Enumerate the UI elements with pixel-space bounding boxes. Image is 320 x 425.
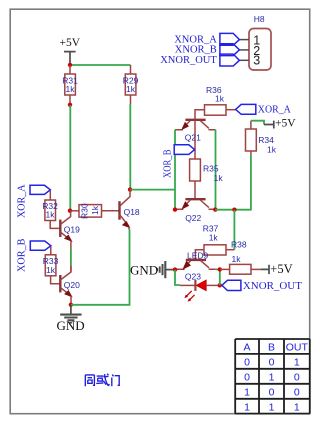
wire R32 to Q19 base	[50, 221, 59, 229]
node junction R37 tap	[232, 208, 236, 212]
node junction at R31 top	[68, 63, 72, 67]
svg-text:1k: 1k	[232, 254, 242, 264]
LED LED9	[184, 251, 219, 302]
wire Q23 collector jog	[216, 268, 220, 270]
node junction LED anode / XNOR_OUT	[218, 283, 222, 287]
svg-text:0: 0	[244, 357, 250, 369]
power +5V right	[264, 118, 296, 130]
node junction Q22 collector	[213, 207, 217, 211]
svg-text:1: 1	[294, 357, 300, 369]
svg-text:1k: 1k	[126, 84, 136, 94]
svg-text:Q19: Q19	[64, 225, 80, 235]
svg-text:XOR_A: XOR_A	[258, 105, 292, 116]
wire R31 top lead	[69, 65, 71, 74]
pin 3	[239, 54, 260, 68]
port XNOR_A	[174, 33, 239, 45]
transistor Q18	[120, 190, 140, 227]
wire R37 right lead	[226, 249, 234, 251]
svg-text:Q22: Q22	[185, 213, 201, 223]
svg-text:GND: GND	[57, 318, 85, 333]
svg-text:+5V: +5V	[270, 262, 292, 276]
svg-text:LED9: LED9	[187, 251, 209, 261]
transistor Q22	[175, 199, 215, 223]
resistor R34	[246, 129, 277, 154]
wire R38 left lead	[220, 268, 230, 270]
wire R38 right lead	[251, 268, 261, 270]
wire +5V rail to R29	[70, 64, 131, 66]
node junction Q18 collector	[128, 187, 132, 191]
svg-text:1k: 1k	[267, 144, 277, 154]
wire anode node up to R38 node	[219, 269, 221, 285]
svg-text:0: 0	[244, 372, 250, 384]
wire Q19 emitter to Q20 collector	[70, 241, 72, 250]
port XOR_A right	[236, 104, 292, 115]
svg-text:0: 0	[269, 357, 275, 369]
port XOR_B left	[16, 238, 51, 272]
svg-text:GND: GND	[130, 262, 158, 277]
resistor R30	[79, 203, 102, 219]
wire R37 tap down	[233, 210, 235, 250]
svg-text:A: A	[243, 342, 250, 354]
svg-text:+5V: +5V	[60, 37, 81, 49]
node junction Q19 collector / R30	[68, 209, 72, 213]
svg-text:1: 1	[269, 372, 275, 384]
wire R31 bottom lead	[69, 95, 71, 105]
wire R35 to Q22	[194, 181, 196, 199]
wire R30 left lead	[70, 210, 79, 212]
transistor Q23	[176, 260, 216, 282]
svg-text:XOR_B: XOR_B	[162, 149, 173, 178]
port XNOR_B	[175, 44, 240, 56]
svg-text:+5V: +5V	[275, 118, 296, 130]
svg-text:1: 1	[269, 401, 275, 413]
svg-text:R34: R34	[258, 135, 274, 145]
node junction Q22 emitter	[173, 207, 177, 211]
node junction below R31	[68, 103, 72, 107]
svg-text:R38: R38	[231, 240, 247, 250]
wire to LED9 cathode	[180, 284, 195, 286]
svg-text:1: 1	[244, 386, 250, 398]
transistor Q21	[175, 120, 216, 159]
svg-text:Q23: Q23	[185, 271, 201, 281]
port XNOR_OUT	[222, 280, 302, 292]
node junction GND	[69, 303, 73, 307]
svg-text:0: 0	[294, 372, 300, 384]
wire Q20 emitter to GND node	[70, 296, 72, 305]
ground GND bottom	[57, 305, 85, 333]
wire R29 top lead	[130, 65, 132, 74]
power +5V top-left	[60, 37, 81, 64]
svg-text:OUT: OUT	[286, 342, 309, 354]
resistor R35	[190, 159, 224, 183]
svg-text:0: 0	[294, 386, 300, 398]
svg-text:1: 1	[244, 401, 250, 413]
svg-text:1k: 1k	[66, 84, 76, 94]
svg-text:1: 1	[294, 401, 300, 413]
svg-text:3: 3	[253, 54, 260, 68]
svg-text:XOR_B: XOR_B	[16, 238, 27, 272]
resistor R38	[230, 240, 251, 275]
svg-text:H8: H8	[254, 14, 265, 24]
wire Q18 node to XOR tree	[130, 189, 175, 191]
wire R29 to Q18 collector node	[129, 104, 131, 190]
node junction GND tap LED row	[173, 267, 177, 271]
wire collector node to R34 rail	[215, 155, 251, 210]
wire XOR_B to R33	[50, 246, 52, 255]
resistor R32	[42, 200, 58, 221]
resistor R37	[203, 224, 226, 255]
svg-text:B: B	[268, 342, 275, 354]
wire R33 to Q20 base	[51, 276, 60, 284]
wire Q18 emitter lead	[128, 227, 130, 230]
svg-text:R30: R30	[80, 203, 90, 219]
svg-text:1k: 1k	[46, 210, 56, 220]
svg-text:1k: 1k	[46, 265, 56, 275]
svg-text:0: 0	[269, 386, 275, 398]
svg-text:1k: 1k	[90, 205, 100, 215]
transistor Q19	[60, 211, 80, 241]
title 同或门 (XNOR gate) drawn glyphs	[85, 374, 119, 387]
svg-text:Q21: Q21	[185, 133, 201, 143]
resistor R29	[123, 74, 139, 95]
wire R31 to Q19 collector node	[69, 105, 71, 211]
svg-text:1k: 1k	[209, 232, 219, 242]
power +5V bottom right	[261, 262, 293, 276]
svg-text:Q18: Q18	[124, 207, 140, 217]
port XOR_B middle	[162, 145, 194, 178]
wire XOR_A to R32	[49, 191, 51, 201]
resistor R33	[43, 255, 59, 276]
ground GND led row	[130, 261, 173, 278]
wire R30 to Q18 base	[102, 210, 119, 212]
resistor R36	[205, 85, 227, 115]
svg-text:1k: 1k	[215, 93, 225, 103]
svg-text:XNOR_OUT: XNOR_OUT	[160, 55, 217, 66]
wire R29 bottom lead	[130, 95, 132, 104]
wire R37 left to Q23 base	[195, 250, 204, 259]
wire R36 right to XOR_A port	[226, 109, 236, 111]
wire Q21 collector down right rail	[215, 130, 217, 210]
wire R34 bottom lead	[250, 151, 252, 155]
wire R34 top to +5V	[250, 121, 252, 129]
wire GND node down to LED cathode	[175, 270, 180, 285]
resistor R31	[62, 74, 78, 95]
wire Q21 emitter down left rail	[174, 130, 176, 210]
wire R36 left to Q21 base	[195, 110, 205, 119]
svg-text:XOR_A: XOR_A	[16, 184, 27, 218]
wire emitter bus to Q18 emitter	[71, 229, 130, 305]
truth table	[235, 339, 310, 414]
pin 1	[239, 34, 260, 48]
svg-text:1k: 1k	[214, 173, 224, 183]
node junction R38 left	[218, 267, 222, 271]
transistor Q20	[60, 266, 80, 297]
svg-text:XNOR_OUT: XNOR_OUT	[243, 281, 302, 292]
pin 2	[239, 44, 260, 58]
connector H8	[249, 14, 271, 70]
svg-text:Q20: Q20	[64, 280, 80, 290]
port XOR_A left	[16, 184, 50, 218]
port XNOR_OUT top	[160, 54, 239, 66]
